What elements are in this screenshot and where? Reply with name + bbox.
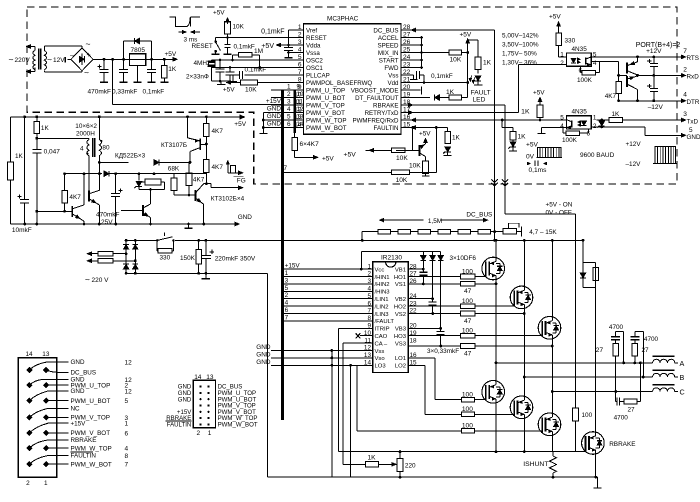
svg-text:+5V - ON: +5V - ON (546, 202, 573, 209)
svg-text:3×10DF6: 3×10DF6 (450, 255, 477, 262)
wire VB3 (408, 327, 441, 329)
svg-text:0,1ms: 0,1ms (529, 167, 548, 174)
svg-text:27: 27 (596, 347, 604, 354)
svg-text:RBRAKE: RBRAKE (373, 102, 398, 109)
svg-text:Vref: Vref (306, 27, 317, 34)
svg-text:0,1mkF: 0,1mkF (431, 73, 453, 80)
wire opto1 pin5 RTS line (591, 56, 683, 58)
svg-text:100: 100 (582, 412, 593, 419)
wire Q5 emitter to 4K7a (205, 143, 208, 146)
+5V output arrow (173, 57, 178, 61)
svg-text:0V - OFF: 0V - OFF (546, 210, 572, 217)
wire q2 base (37, 210, 73, 212)
wire Vdd pin21 (408, 82, 468, 84)
wire +15V feed (112, 59, 114, 104)
bridge rectifier 2 (125, 240, 127, 273)
svg-text:6: 6 (285, 307, 289, 314)
regulator 7805 (130, 54, 146, 66)
svg-text:+5V: +5V (460, 32, 472, 39)
bridge rectifier VD1 (71, 48, 93, 71)
resistor 10K PWMPOL pin8 (226, 82, 240, 84)
svg-text:1,30V– 36%: 1,30V– 36% (502, 59, 537, 66)
svg-text:PWM_W_BOT: PWM_W_BOT (71, 461, 112, 468)
svg-text:0,1mkF: 0,1mkF (261, 28, 284, 35)
svg-text:Vssa: Vssa (306, 50, 320, 57)
svg-text:7: 7 (298, 69, 302, 76)
wire LO3 route2 (356, 365, 358, 431)
svg-text:/HIN3: /HIN3 (375, 290, 391, 296)
svg-text:/LIN2: /LIN2 (375, 304, 389, 310)
resistor 4,7-15K (503, 229, 517, 234)
svg-text:10K: 10K (233, 24, 245, 31)
svg-text:3×0,33mkF: 3×0,33mkF (427, 348, 459, 355)
IGBT lower W VT6 (538, 413, 561, 436)
svg-text:4K7: 4K7 (69, 194, 81, 201)
optocoupler 4N35 U2 (567, 53, 592, 66)
wire FG output (204, 183, 211, 185)
svg-text:~: ~ (47, 55, 52, 65)
wire Vss pin22 gnd + cap (408, 74, 414, 76)
phase row C (552, 391, 652, 393)
svg-text:5: 5 (125, 398, 129, 405)
svg-text:1K: 1K (15, 153, 24, 160)
svg-text:4MHz: 4MHz (194, 60, 211, 67)
svg-text:CA –: CA – (375, 341, 388, 347)
wire xtal gnd (211, 68, 213, 82)
resistor 100K opto1 (591, 61, 599, 63)
svg-text:ISHUNT: ISHUNT (523, 461, 548, 468)
svg-text:PWM_U_BOT: PWM_U_BOT (306, 95, 345, 102)
svg-text:330: 330 (565, 38, 576, 45)
svg-text:9: 9 (297, 84, 301, 91)
resistor 4K7 lower right (204, 159, 210, 172)
svg-text:12: 12 (125, 388, 133, 395)
connector bus bar right (293, 90, 296, 133)
chevron crossing RBRAKE (502, 179, 508, 182)
svg-text:12V: 12V (53, 57, 65, 64)
svg-text:14: 14 (194, 374, 202, 381)
svg-text:GND: GND (267, 121, 282, 128)
svg-text:7805: 7805 (131, 47, 146, 54)
svg-text:~: ~ (84, 68, 89, 78)
wire RBRAKE pin18 (408, 104, 505, 106)
wire +5V arrow Vdda pin3 (276, 44, 303, 46)
svg-text:0,1mkF: 0,1mkF (234, 43, 255, 50)
svg-text:LED: LED (473, 97, 486, 104)
svg-text:VB2: VB2 (395, 297, 406, 303)
svg-text:0,047: 0,047 (44, 149, 61, 156)
svg-text:HO1: HO1 (394, 275, 406, 281)
capacitor 33n second (229, 66, 232, 69)
svg-text:B: B (680, 373, 685, 382)
svg-text:IR2130: IR2130 (381, 254, 402, 261)
resistor 1K itrip (343, 463, 366, 465)
svg-text:+5V: +5V (223, 87, 235, 94)
wire secondary loop (43, 46, 45, 51)
wire +12V rail (93, 58, 175, 60)
wire HO1/VS1 (408, 276, 461, 278)
gnd 310V (205, 273, 207, 278)
svg-text:4K7: 4K7 (212, 164, 224, 171)
svg-text:5: 5 (560, 114, 564, 121)
resistor 10K base (366, 149, 392, 151)
svg-text:VS3: VS3 (395, 341, 407, 347)
+5V arrow into board (234, 116, 244, 118)
wire DC- down (267, 273, 269, 477)
svg-text:VBOOST_MODE: VBOOST_MODE (351, 87, 399, 94)
svg-text:13: 13 (206, 374, 214, 381)
svg-text:220V: 220V (15, 57, 31, 64)
svg-text:Vcc: Vcc (375, 267, 385, 273)
svg-text:GND: GND (267, 113, 282, 120)
wire fuse to bridge (113, 253, 126, 255)
wire fault from IR2130 row7 (281, 171, 391, 173)
wire DC- rail (126, 272, 268, 274)
wire Q1 collector (98, 156, 100, 191)
svg-text:FAULTIN: FAULTIN (167, 422, 192, 429)
diode across 7805 (123, 41, 125, 59)
svg-text:+5V: +5V (419, 131, 431, 138)
motor winding B (653, 369, 675, 371)
board outline (dashed) (27, 7, 677, 184)
wire RxD line (638, 74, 684, 76)
svg-text:DC_BUS: DC_BUS (71, 370, 97, 377)
svg-text:220mkF 350V: 220mkF 350V (215, 256, 256, 263)
svg-text:5,00V–142%: 5,00V–142% (502, 32, 539, 39)
motor winding C (653, 384, 675, 386)
resistor 6x4K7 pullup (294, 133, 296, 138)
svg-text:1K: 1K (518, 134, 527, 141)
svg-text:+5V: +5V (549, 14, 561, 21)
svg-text:+: + (87, 52, 91, 59)
svg-text:PWM_W_BOT: PWM_W_BOT (306, 125, 347, 132)
svg-text:4700: 4700 (644, 336, 659, 343)
svg-text:DC_BUS: DC_BUS (373, 27, 398, 34)
capacitor 0,1mkF (151, 59, 153, 69)
resistor 4K7 mid (188, 162, 190, 172)
resistor 150K bleeder (198, 240, 200, 249)
brake circuit diode+res (582, 240, 584, 262)
resistor horizontal pulse (145, 179, 161, 185)
svg-text:2000Н: 2000Н (76, 131, 95, 138)
wire phase V column (523, 309, 525, 396)
svg-text:LO3: LO3 (375, 364, 387, 370)
wire ITRIP (339, 327, 373, 329)
resistor chain 1,5M (361, 232, 363, 241)
svg-text:14: 14 (297, 121, 304, 128)
snubber 1 res 27 (613, 343, 619, 355)
wire sync row 162 left (99, 161, 128, 163)
svg-text:1K: 1K (41, 125, 50, 132)
wire +15V to bootstrap (360, 268, 363, 271)
svg-text:1K: 1K (368, 455, 377, 462)
svg-text:4: 4 (125, 446, 129, 453)
crystal 4MHz (211, 60, 213, 61)
svg-text:TxD: TxD (687, 118, 699, 125)
svg-text:Vdda: Vdda (306, 42, 321, 49)
svg-text:7: 7 (683, 48, 687, 55)
resistor 330 bypass (156, 240, 158, 250)
wire FAULTIN pin15 (408, 127, 448, 129)
wire PWMFREQ/RxD pin16 (408, 119, 567, 121)
svg-text:GND: GND (267, 106, 282, 113)
svg-text:220: 220 (405, 462, 416, 469)
svg-text:2: 2 (287, 91, 291, 98)
svg-text:RBRAKE: RBRAKE (71, 437, 97, 444)
motor winding A (653, 355, 675, 357)
svg-text:/HIN2: /HIN2 (375, 282, 390, 288)
wire lower emitters (495, 403, 497, 452)
svg-text:10K: 10K (409, 163, 421, 170)
capacitor 33n first (219, 60, 221, 65)
svg-text:1K: 1K (452, 135, 461, 142)
svg-text:LO2: LO2 (395, 364, 406, 370)
svg-text:GND: GND (256, 344, 271, 351)
wire DC+ to bridge (494, 232, 496, 241)
bus wires to IR2130 (281, 268, 373, 270)
phase row B (524, 376, 652, 378)
svg-text:/LIN1: /LIN1 (375, 297, 389, 303)
svg-text:4: 4 (287, 106, 291, 113)
svg-text:470mkF: 470mkF (96, 212, 120, 219)
svg-text:2: 2 (26, 480, 30, 487)
wire OSC1 pin6 (212, 67, 304, 69)
svg-text:25V: 25V (101, 219, 113, 226)
chevron crossing DC_BUS (491, 179, 497, 182)
wire OSC2 pin5 (212, 59, 304, 61)
optocoupler 4N35 U3 (567, 116, 592, 129)
svg-text:PWM_V_BOT: PWM_V_BOT (306, 110, 345, 117)
svg-text:FAULTIN: FAULTIN (374, 125, 399, 132)
svg-text:10K: 10K (450, 57, 462, 64)
IC MC3PHAC U1 (304, 24, 402, 135)
svg-text:4700: 4700 (609, 324, 624, 331)
connector XP2 diagram (193, 380, 215, 427)
transistor Q4 KT3102 (195, 190, 197, 201)
svg-text:C: C (680, 388, 685, 397)
svg-text:10K: 10K (245, 87, 257, 94)
svg-text:GND: GND (238, 214, 253, 221)
svg-text:2: 2 (197, 430, 201, 437)
tie bracket ACCEL/SPEED/MIX_IN/START/FWD (408, 37, 422, 39)
svg-text:4: 4 (560, 123, 564, 130)
svg-text:3,50V–100%: 3,50V–100% (502, 41, 539, 48)
wires PWM pins 9-14 to bus (271, 89, 304, 91)
svg-text:6: 6 (287, 121, 291, 128)
transistor Q2 (71, 206, 73, 217)
IGBT upper V VT2 (510, 286, 533, 309)
svg-text:PWMFREQ/RxD: PWMFREQ/RxD (352, 117, 399, 124)
svg-text:7: 7 (284, 165, 288, 172)
wire opto2 pin2 gnd line (591, 126, 645, 128)
wire Vref pin1 (289, 29, 304, 31)
diode D2 on 162 row (154, 159, 159, 165)
svg-text:–12V: –12V (648, 104, 664, 111)
svg-text:OSC1: OSC1 (306, 65, 323, 72)
resistor 10K emitter (425, 157, 427, 161)
svg-text:100K: 100K (577, 77, 593, 84)
gnd sym power (597, 477, 599, 488)
svg-text:/HIN1: /HIN1 (375, 275, 390, 281)
FAULTIN 1K zener (447, 128, 449, 132)
svg-text:CAO: CAO (375, 334, 388, 340)
resistor 4K7 upper right (205, 117, 207, 124)
svg-text:+5V: +5V (344, 152, 357, 159)
svg-text:–12V: –12V (626, 161, 642, 168)
svg-text:0V: 0V (526, 154, 535, 161)
svg-text:12: 12 (125, 359, 133, 366)
svg-text:+5V: +5V (322, 155, 334, 162)
svg-text:1K: 1K (446, 89, 455, 96)
waveform icon 3ms (170, 17, 191, 27)
svg-text:A: A (680, 359, 685, 368)
IGBT lower V VT5 (510, 396, 533, 419)
resistor 1K TxD (602, 119, 609, 121)
svg-text:RBRAKE: RBRAKE (609, 441, 635, 448)
diode D1 (104, 171, 109, 177)
IGBT brake VT7 (582, 432, 605, 455)
svg-text:ACCEL: ACCEL (378, 35, 399, 42)
capacitor boot1 (422, 269, 424, 272)
svg-text:47: 47 (464, 288, 472, 295)
svg-text:11: 11 (297, 99, 304, 106)
svg-text:1: 1 (44, 480, 48, 487)
svg-text:1: 1 (125, 421, 129, 428)
capacitor 0,047 (36, 138, 38, 149)
svg-text:VS1: VS1 (395, 282, 406, 288)
svg-text:START: START (379, 57, 399, 64)
svg-text:7: 7 (285, 314, 289, 321)
svg-text:1,75V– 50%: 1,75V– 50% (502, 50, 537, 57)
svg-text:2: 2 (683, 66, 687, 73)
svg-text:~: ~ (9, 55, 14, 65)
svg-text:6: 6 (298, 62, 302, 69)
svg-text:MC3PHAC: MC3PHAC (327, 16, 359, 23)
svg-text:FG: FG (237, 178, 246, 185)
+5V arrow for 10K (227, 18, 229, 25)
svg-text:220 V: 220 V (92, 277, 110, 284)
svg-text:PORT(B+4)=2: PORT(B+4)=2 (636, 42, 681, 49)
svg-text:Vdd: Vdd (387, 80, 399, 87)
svg-text:DT_FAULTOUT: DT_FAULTOUT (355, 95, 399, 102)
resistor 10K MIX_IN (408, 52, 449, 54)
svg-text:PWM_W_TOP: PWM_W_TOP (71, 445, 112, 452)
svg-text:Vso: Vso (375, 356, 386, 362)
svg-text:+15V: +15V (71, 420, 87, 427)
wire Q1 emitter (98, 205, 100, 224)
wire RETRY/TxD pin17 (408, 112, 519, 114)
FAULT LED chain (468, 39, 478, 41)
svg-text:5: 5 (593, 52, 597, 59)
pot 220 (397, 459, 403, 472)
svg-text:3: 3 (683, 111, 687, 118)
svg-text:68K: 68K (168, 166, 180, 173)
svg-text:PWM_V_BOT: PWM_V_BOT (71, 430, 111, 437)
svg-text:13: 13 (42, 351, 50, 358)
svg-text:1: 1 (287, 84, 291, 91)
svg-text:47: 47 (464, 350, 472, 357)
wire LO1 route (408, 357, 435, 359)
wire LO2 route (408, 364, 425, 366)
svg-text:FWD: FWD (384, 65, 399, 72)
svg-text:RxD: RxD (687, 74, 700, 81)
svg-text:4K7: 4K7 (212, 128, 224, 135)
snubber 2 res 27 (632, 343, 638, 355)
svg-text:+15V: +15V (285, 263, 301, 270)
capacitor 0,1mkF reset (227, 38, 229, 45)
svg-text:5: 5 (285, 285, 289, 292)
svg-text:1K: 1K (168, 66, 177, 73)
svg-text:2×33nФ: 2×33nФ (186, 74, 209, 81)
svg-text:4: 4 (683, 92, 687, 99)
svg-text:4700: 4700 (614, 415, 629, 422)
svg-text:VB3: VB3 (395, 327, 407, 333)
svg-text:PWM_W_BOT: PWM_W_BOT (218, 422, 258, 429)
svg-text:5: 5 (689, 127, 693, 134)
svg-text:GND: GND (71, 388, 85, 395)
wire reset line pin2 (216, 37, 304, 39)
wire gnd bus rows (263, 112, 271, 114)
svg-text:КД522Б×3: КД522Б×3 (115, 153, 146, 160)
svg-text:КТ3107Б: КТ3107Б (161, 142, 187, 149)
wire primary to Q1 base (88, 156, 90, 191)
svg-text:GND: GND (178, 396, 192, 403)
resistor 100K opto2 (587, 129, 589, 133)
svg-text:5: 5 (298, 54, 302, 61)
svg-text:+5V: +5V (213, 10, 225, 17)
wire q2 collector up (83, 174, 85, 205)
svg-text:+5V: +5V (261, 43, 274, 50)
svg-text:1K: 1K (612, 111, 621, 118)
svg-text:RETRY/TxD: RETRY/TxD (365, 110, 399, 117)
snubber 3 horizontal (616, 401, 617, 403)
svg-text:10×6×2: 10×6×2 (75, 123, 97, 130)
resistor 68K (173, 174, 175, 179)
resistor 330 (558, 32, 560, 34)
svg-text:2: 2 (298, 32, 302, 39)
svg-text:VS2: VS2 (395, 312, 406, 318)
svg-text:1K: 1K (521, 109, 530, 116)
IGBT lower U VT4 (482, 381, 505, 404)
svg-text:PWMPOL_BASEFRWQ: PWMPOL_BASEFRWQ (306, 80, 372, 87)
svg-text:/FAULT: /FAULT (375, 319, 395, 325)
svg-text:470mkF: 470mkF (88, 89, 112, 96)
svg-text:4K7: 4K7 (193, 177, 205, 184)
wire GND rail sync (11, 223, 237, 225)
capacitor +12V filter (653, 57, 655, 64)
svg-text:~: ~ (85, 275, 90, 285)
capacitor 10mkF (24, 117, 26, 200)
svg-text:SPEED: SPEED (378, 42, 400, 49)
capacitor 0,1mkF PLL pin7 (245, 74, 304, 76)
capacitor 0,1mkF Vdda (288, 45, 290, 47)
wire to +5V (294, 150, 296, 157)
phase row A (496, 362, 653, 364)
svg-text:100K: 100K (562, 137, 578, 144)
resistor 1K pullup RxD (538, 97, 542, 102)
svg-text:2: 2 (560, 60, 564, 67)
wire power gnd rail (268, 476, 598, 478)
svg-text:1: 1 (285, 270, 289, 277)
zener TxD (597, 119, 606, 121)
resistor 1M (233, 54, 239, 56)
svg-text:КТ3102Б×4: КТ3102Б×4 (211, 196, 245, 203)
svg-text:18: 18 (410, 337, 418, 344)
svg-text:8: 8 (125, 453, 129, 460)
resistor 4K7 base bleed (618, 75, 620, 81)
svg-text:9600 BAUD: 9600 BAUD (580, 152, 615, 159)
svg-text:10mkF: 10mkF (12, 227, 32, 234)
